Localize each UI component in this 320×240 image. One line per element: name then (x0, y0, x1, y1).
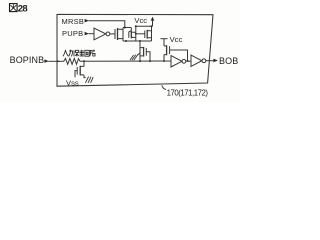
wire BOPINB into box (48, 60, 64, 62)
T2 lead to Vcc rail and drain rail (135, 26, 137, 41)
svg-text:28: 28 (18, 3, 28, 14)
transistor T4 (protection clamp NMOS) (83, 61, 85, 66)
svg-text:Vcc: Vcc (170, 35, 183, 44)
wire MRSB to cluster (89, 21, 125, 28)
wire PUPB to inverter U1 (89, 33, 94, 35)
label 入力保護回路 (input protection circuit) (63, 50, 95, 57)
enclosure box 170 (57, 14, 213, 86)
ground hatch T4 (85, 77, 93, 83)
wire keeper drain down to node (163, 55, 165, 61)
inverter U2 (171, 56, 182, 67)
inverter U1 (PUPB) (94, 28, 106, 40)
svg-text:170(171,172): 170(171,172) (167, 89, 209, 98)
figure label 図28 (10, 4, 18, 12)
leader hook for 170 (162, 85, 166, 89)
transistor T2 (PMOS, gate from MRSB net) (128, 32, 130, 38)
Vcc rail top (136, 25, 153, 27)
Vcc supply arrow (152, 20, 154, 27)
input terminal arrow BOPINB (44, 59, 48, 63)
wire U1 out to gate of T1 (110, 33, 115, 35)
wire down to node A (139, 41, 141, 61)
svg-text:Vcc: Vcc (134, 16, 147, 25)
ground hatch T3b (138, 53, 140, 55)
svg-text:BOPINB: BOPINB (10, 55, 45, 65)
Vcc supply right (keeper) (161, 38, 168, 40)
drain rail bottom (123, 40, 152, 42)
wire U3 to output (206, 60, 214, 62)
transistor T3 (PMOS right, gate tied to T2 lead) (136, 33, 145, 35)
node A wire (main node) (80, 60, 164, 62)
svg-text:MRSB: MRSB (62, 17, 85, 26)
input terminal arrow PUPB (85, 32, 89, 36)
inverter U3 (191, 55, 202, 66)
wire node to inverter U2 (164, 60, 171, 62)
transistor T3b (clamp at node A) (140, 48, 144, 56)
resistor R1 (protection) (64, 58, 80, 64)
net H1: T1 top / MRSB / T2 gate (123, 27, 131, 29)
svg-text:BOB: BOB (219, 56, 238, 66)
output arrow BOB (213, 59, 218, 63)
svg-text:PUPB: PUPB (62, 29, 83, 38)
input terminal arrow MRSB (85, 19, 89, 23)
svg-text:Vss: Vss (66, 78, 79, 87)
wire U2 to U3 (186, 60, 191, 62)
transistor T5 (keeper PMOS) (164, 46, 167, 55)
transistor T1 (PMOS, gate from U1) (114, 29, 116, 39)
